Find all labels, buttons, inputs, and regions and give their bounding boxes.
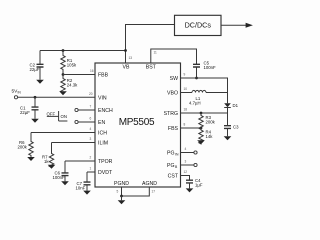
svg-text:VBO: VBO — [167, 91, 178, 97]
svg-text:DC/DCs: DC/DCs — [185, 21, 212, 30]
svg-text:3: 3 — [90, 137, 92, 141]
svg-text:OFF: OFF — [47, 112, 56, 117]
svg-text:1: 1 — [90, 167, 92, 171]
svg-text:200k: 200k — [206, 120, 216, 125]
svg-text:4: 4 — [90, 127, 92, 131]
svg-text:CST: CST — [168, 174, 179, 180]
svg-text:AGND: AGND — [142, 181, 157, 187]
svg-text:PG: PG — [167, 163, 175, 169]
svg-text:22µF: 22µF — [30, 67, 40, 72]
svg-text:4.7µH: 4.7µH — [189, 101, 201, 106]
svg-text:2: 2 — [90, 156, 92, 160]
svg-text:SW: SW — [170, 76, 178, 82]
svg-text:D1: D1 — [233, 103, 239, 108]
svg-text:BST: BST — [146, 65, 157, 71]
svg-text:24.3k: 24.3k — [67, 82, 78, 87]
svg-text:7: 7 — [90, 105, 92, 109]
svg-text:9: 9 — [184, 73, 186, 77]
svg-text:6: 6 — [90, 117, 92, 121]
svg-text:VIN: VIN — [98, 95, 107, 101]
svg-text:PG: PG — [167, 151, 175, 157]
svg-text:22µF: 22µF — [20, 110, 30, 115]
svg-text:14k: 14k — [206, 134, 214, 139]
svg-text:B: B — [175, 165, 178, 169]
svg-text:VB: VB — [123, 65, 130, 71]
svg-text:MP5505: MP5505 — [119, 117, 155, 128]
svg-text:IN: IN — [18, 90, 22, 94]
svg-text:100nF: 100nF — [204, 65, 217, 70]
svg-text:FBB: FBB — [98, 73, 109, 79]
svg-text:ILIM: ILIM — [98, 141, 108, 147]
svg-text:11: 11 — [154, 51, 158, 55]
svg-text:DVDT: DVDT — [98, 170, 113, 176]
svg-text:5: 5 — [117, 190, 119, 194]
svg-text:20: 20 — [89, 92, 93, 96]
svg-text:ENCH: ENCH — [98, 108, 113, 114]
svg-text:10nF: 10nF — [76, 185, 86, 190]
svg-text:TPOR: TPOR — [98, 159, 113, 165]
svg-text:3: 3 — [185, 160, 187, 164]
svg-text:12: 12 — [184, 170, 188, 174]
svg-text:4: 4 — [185, 147, 187, 151]
svg-text:1µF: 1µF — [195, 183, 203, 188]
svg-text:17: 17 — [152, 190, 156, 194]
svg-text:FBS: FBS — [168, 126, 179, 132]
svg-text:STRG: STRG — [164, 111, 178, 117]
svg-text:13: 13 — [129, 56, 133, 60]
svg-text:105k: 105k — [67, 63, 77, 68]
svg-text:ON: ON — [61, 114, 67, 119]
svg-text:10: 10 — [184, 87, 188, 91]
svg-text:EN: EN — [98, 120, 105, 126]
svg-text:8: 8 — [184, 123, 186, 127]
svg-text:ICH: ICH — [98, 131, 107, 137]
svg-text:200k: 200k — [18, 145, 28, 150]
svg-text:PGND: PGND — [114, 181, 129, 187]
svg-text:IN: IN — [175, 153, 179, 157]
svg-text:16: 16 — [90, 69, 94, 73]
svg-text:C3: C3 — [233, 124, 239, 129]
svg-text:100nF: 100nF — [53, 175, 66, 180]
svg-text:18: 18 — [184, 108, 188, 112]
